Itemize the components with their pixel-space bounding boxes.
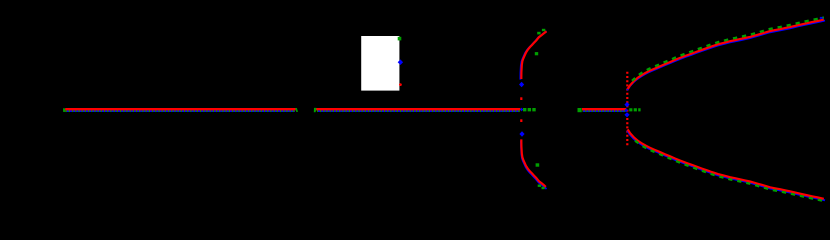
- lower-left branch blue curve: [521, 141, 547, 189]
- blue diamond right bifurcation upper: [624, 102, 629, 107]
- upper-right branch green dashed curve: [632, 17, 824, 81]
- green dash lower-left branch near end 1: [538, 185, 541, 187]
- green dash lower-left branch near end 2: [542, 187, 545, 189]
- segment A green end marker: [295, 108, 298, 112]
- segment C green underline: [583, 110, 626, 112]
- segment C green start square: [578, 108, 582, 112]
- blue diamond right bifurcation lower: [624, 112, 629, 117]
- green dashes after right bifurcation: [629, 108, 640, 111]
- legend green square marker: [398, 37, 402, 41]
- lower-right branch green dashed curve: [635, 141, 824, 201]
- segment B green start marker: [314, 108, 317, 112]
- upper-right branch red curve: [628, 20, 824, 89]
- upper-right branch blue curve: [627, 21, 825, 91]
- red dotted vertical at right bifurcation: [626, 72, 628, 147]
- segment A green underline: [66, 110, 295, 112]
- legend red dot marker: [399, 83, 402, 86]
- segment B blue dashed line: [318, 110, 520, 112]
- segment A red solid line: [65, 108, 296, 110]
- segment C red solid line: [582, 108, 626, 110]
- blue dash above upper-right branch end: [820, 17, 824, 19]
- segment B green underline: [317, 110, 520, 112]
- red dot below left bifurcation: [520, 119, 522, 122]
- blue diamond right bifurcation on line: [624, 109, 628, 113]
- green dashes after left bifurcation: [523, 108, 537, 111]
- lower-right branch red curve: [628, 129, 824, 198]
- green dash upper-left branch near end 2: [542, 29, 545, 31]
- lower-right branch blue curve: [627, 131, 825, 201]
- blue diamond at left bifurcation on line: [520, 108, 523, 112]
- green dash upper-left branch near end 1: [537, 32, 540, 35]
- segment A green start marker: [63, 108, 66, 112]
- green marker off upper-left branch: [535, 52, 538, 55]
- lower-left branch red curve: [521, 139, 546, 187]
- red dot above left bifurcation: [520, 97, 522, 100]
- upper-left branch blue curve: [520, 32, 546, 80]
- blue diamond lower-left branch: [519, 131, 524, 136]
- segment C blue dashed line: [583, 110, 625, 112]
- green marker off lower-left branch: [536, 163, 540, 166]
- segment B red solid line: [316, 108, 520, 110]
- segment A blue dashed line: [67, 110, 295, 112]
- legend blue diamond marker: [398, 59, 403, 65]
- legend box: [361, 36, 399, 91]
- upper-left branch red curve: [521, 31, 546, 79]
- blue diamond upper-left branch: [519, 82, 524, 87]
